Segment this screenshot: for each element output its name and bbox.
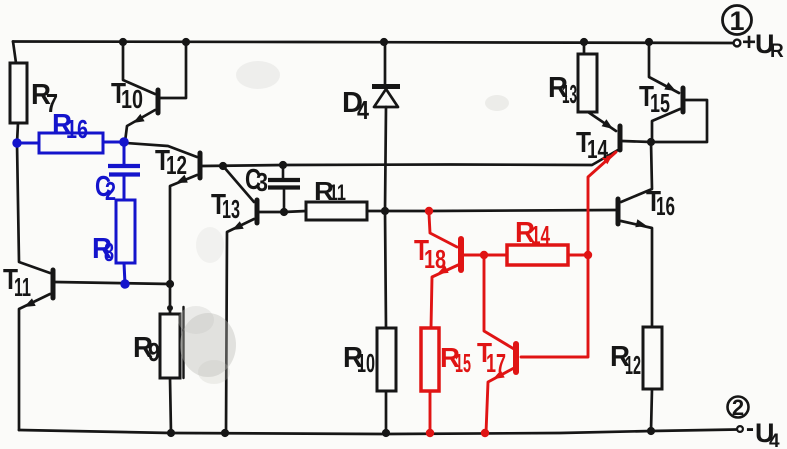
svg-text:2: 2 bbox=[732, 395, 744, 420]
svg-text:-: - bbox=[746, 415, 754, 442]
svg-text:2: 2 bbox=[105, 176, 116, 206]
svg-text:8: 8 bbox=[104, 237, 114, 267]
svg-text:4: 4 bbox=[769, 431, 780, 449]
svg-text:15: 15 bbox=[650, 88, 670, 118]
svg-text:15: 15 bbox=[455, 348, 471, 378]
svg-text:18: 18 bbox=[424, 244, 446, 274]
svg-text:14: 14 bbox=[587, 134, 608, 164]
svg-text:+: + bbox=[742, 29, 756, 56]
svg-text:10: 10 bbox=[357, 348, 375, 378]
svg-text:9: 9 bbox=[148, 337, 160, 367]
svg-text:12: 12 bbox=[166, 150, 187, 180]
svg-text:3: 3 bbox=[256, 167, 268, 197]
svg-text:14: 14 bbox=[531, 220, 550, 250]
svg-text:10: 10 bbox=[121, 84, 143, 114]
svg-text:R: R bbox=[770, 41, 784, 62]
svg-text:11: 11 bbox=[14, 272, 31, 302]
svg-text:13: 13 bbox=[562, 79, 577, 109]
svg-text:4: 4 bbox=[357, 95, 369, 125]
svg-text:16: 16 bbox=[66, 114, 88, 144]
svg-text:13: 13 bbox=[222, 194, 240, 224]
svg-text:11: 11 bbox=[329, 180, 346, 205]
svg-text:16: 16 bbox=[656, 191, 675, 221]
svg-text:17: 17 bbox=[486, 348, 506, 378]
svg-text:12: 12 bbox=[625, 350, 641, 380]
